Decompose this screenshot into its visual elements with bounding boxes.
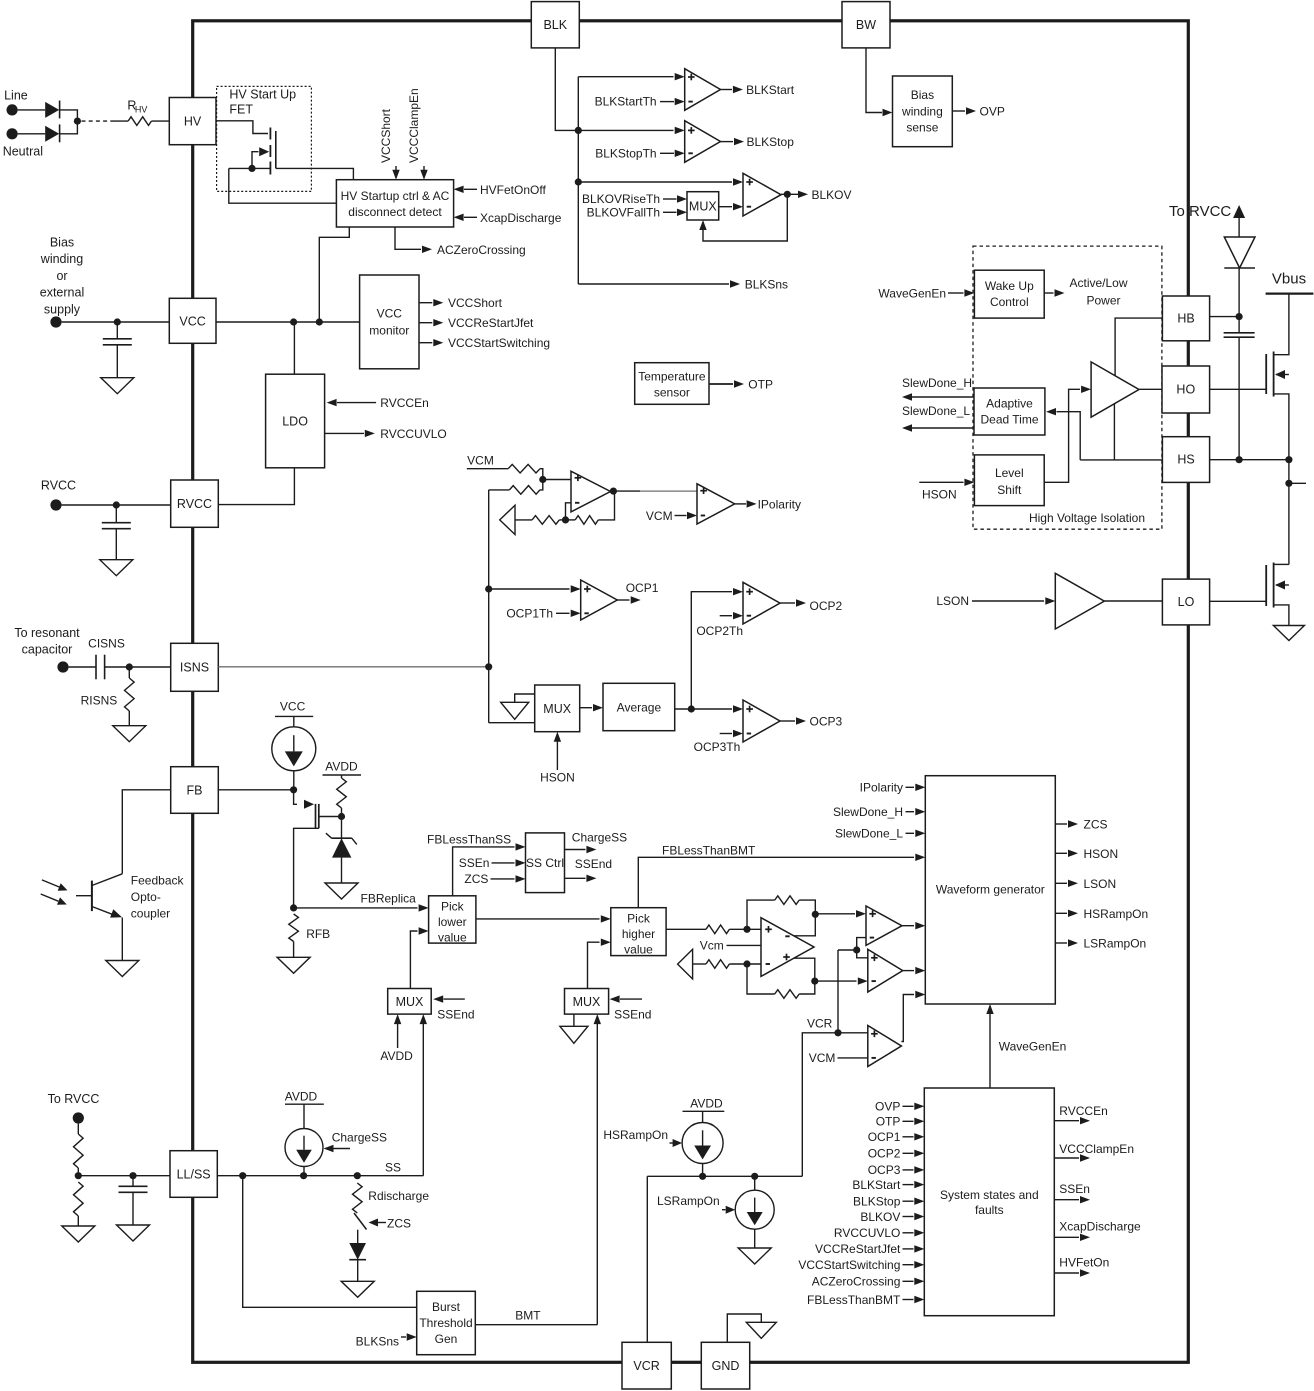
svg-text:VCR: VCR <box>807 1016 833 1030</box>
capacitor bootstrap <box>1224 317 1255 460</box>
block Average <box>603 683 675 730</box>
label OTP fault input <box>876 1115 925 1129</box>
wire bus to OCP1 <box>489 585 581 592</box>
label SSEnd select MUX1 <box>433 995 474 1021</box>
svg-text:HV: HV <box>184 114 202 128</box>
comparator IPolarity <box>697 484 735 524</box>
svg-text:BLKStartTh: BLKStartTh <box>595 95 657 109</box>
box High Voltage Isolation (dashed) <box>973 246 1162 529</box>
svg-text:Feedback: Feedback <box>131 874 185 888</box>
pin LL/SS <box>170 1151 217 1198</box>
wire SlewDone_L output <box>902 404 974 432</box>
pin HB <box>1162 296 1209 341</box>
buffer LSON driver <box>1055 573 1104 629</box>
svg-text:Vbus: Vbus <box>1272 271 1306 288</box>
node opamp output <box>610 488 640 495</box>
svg-text:ACZeroCrossing: ACZeroCrossing <box>437 243 526 257</box>
svg-text:To RVCC: To RVCC <box>48 1092 100 1106</box>
terminal Line <box>7 104 18 115</box>
net AVDD (ramp) <box>683 1097 725 1123</box>
svg-text:OTP: OTP <box>748 378 773 392</box>
wire supply to VCC pin <box>62 318 170 325</box>
wire HB to driver <box>1115 318 1162 376</box>
svg-text:OVP: OVP <box>980 105 1005 119</box>
resistor diff amp feedback bottom <box>747 964 815 998</box>
svg-text:LSRampOn: LSRampOn <box>1084 937 1147 951</box>
mux MUX2 (BMT/gnd) <box>565 989 609 1015</box>
block Burst Threshold Gen <box>417 1291 476 1354</box>
svg-text:CISNS: CISNS <box>88 637 125 651</box>
svg-text:OCP1: OCP1 <box>626 581 659 595</box>
wire BLKSns <box>578 278 788 292</box>
wire HVFetOn output <box>1054 1255 1109 1276</box>
comparator BLKOV <box>743 173 781 216</box>
wire Active/Low Power output <box>1044 276 1128 308</box>
svg-text:BLKStart: BLKStart <box>852 1178 901 1192</box>
block VCC monitor <box>360 275 419 369</box>
svg-text:or: or <box>56 269 67 283</box>
box HV Start Up FET (dashed) <box>217 86 312 191</box>
wire SlewDone_H output <box>902 376 974 401</box>
terminal LL/SS divider <box>73 1112 84 1123</box>
label HSON input <box>919 479 974 502</box>
svg-text:BLKStopTh: BLKStopTh <box>595 146 656 160</box>
svg-text:BLKOV: BLKOV <box>812 188 852 202</box>
svg-text:HV: HV <box>135 105 148 115</box>
node opamp plus input <box>539 476 571 483</box>
svg-text:FBLessThanSS: FBLessThanSS <box>427 832 511 846</box>
wire VCR horizontal <box>647 1173 802 1180</box>
svg-text:OCP2: OCP2 <box>810 599 843 613</box>
wire VCR net <box>802 1033 838 1177</box>
label BLKStart fault input <box>852 1178 924 1192</box>
wire HB external <box>1210 313 1243 320</box>
svg-text:lower: lower <box>438 915 467 929</box>
wire to RVCC arrow <box>1233 205 1245 237</box>
block Waveform generator <box>925 776 1055 1004</box>
svg-text:To RVCC: To RVCC <box>1169 203 1231 220</box>
terminal Neutral <box>7 128 18 139</box>
label XcapDischarge input <box>454 211 562 225</box>
wire startup ctrl to VCC node <box>319 227 349 322</box>
svg-text:VCC: VCC <box>280 700 306 714</box>
ground MUX reference triangle <box>501 694 535 719</box>
svg-text:MUX: MUX <box>573 995 601 1009</box>
svg-text:RVCCUVLO: RVCCUVLO <box>380 427 446 441</box>
block SS Ctrl <box>526 833 565 893</box>
svg-text:BLKSns: BLKSns <box>356 1335 399 1349</box>
resistor to VCM buffer <box>515 516 566 525</box>
label VCCClampEn (vertical) <box>407 88 428 179</box>
svg-text:ChargeSS: ChargeSS <box>332 1130 387 1144</box>
svg-text:coupler: coupler <box>131 907 170 921</box>
wire LSRampOn to ground <box>754 1229 756 1248</box>
block Bias winding sense <box>893 76 953 147</box>
svg-text:VCR: VCR <box>633 1359 659 1373</box>
resistor RFB <box>289 914 330 957</box>
net AVDD (ChargeSS) <box>285 1090 324 1129</box>
wire FB to opto collector <box>122 790 170 874</box>
wire neutral to diode <box>18 133 46 135</box>
wire OTP output <box>709 378 773 392</box>
block Pick higher value <box>611 908 666 957</box>
ground RFB <box>277 957 310 973</box>
svg-text:IPolarity: IPolarity <box>860 781 903 795</box>
svg-text:BW: BW <box>856 18 876 32</box>
diode SS discharge <box>349 1230 366 1282</box>
wire VCC internal rail <box>216 318 360 325</box>
transistor HV startup FET <box>252 128 276 175</box>
label WaveGenEn input <box>878 286 974 300</box>
wire VCCShort output <box>419 296 503 310</box>
ground divider <box>62 1226 95 1242</box>
terminal RVCC <box>50 499 61 510</box>
svg-text:Control: Control <box>990 295 1029 309</box>
svg-text:RVCCEn: RVCCEn <box>380 396 428 410</box>
wire FB to node <box>218 786 297 793</box>
comparator waveform B <box>868 949 903 992</box>
wire low FET drain <box>1274 563 1289 565</box>
resistor VCM input <box>508 464 543 479</box>
comparator OCP2 <box>743 582 780 624</box>
svg-text:SlewDone_L: SlewDone_L <box>902 404 970 418</box>
svg-text:HO: HO <box>1176 383 1195 397</box>
svg-text:RVCC: RVCC <box>177 497 212 511</box>
svg-text:Threshold: Threshold <box>419 1316 472 1330</box>
wire rectifier junction <box>60 110 81 134</box>
block LDO <box>266 374 325 468</box>
capacitor LLSS <box>119 1176 148 1225</box>
svg-text:BLKStart: BLKStart <box>746 83 795 97</box>
label VCM to comparator <box>809 1051 868 1065</box>
label OVP fault input <box>875 1100 924 1114</box>
node BLKOV output <box>781 188 852 202</box>
wire LSON output <box>1055 877 1116 891</box>
svg-text:SS: SS <box>385 1160 401 1174</box>
svg-text:LDO: LDO <box>282 414 308 428</box>
svg-text:FBLessThanBMT: FBLessThanBMT <box>807 1293 901 1307</box>
svg-text:MUX: MUX <box>396 995 424 1009</box>
svg-text:OCP3: OCP3 <box>810 715 843 729</box>
svg-text:RVCCEn: RVCCEn <box>1059 1104 1107 1118</box>
wire RVCC to pin <box>62 501 171 508</box>
label VCM to IPolarity <box>646 509 697 523</box>
wire BLK to BLKStop comparator <box>578 127 684 134</box>
svg-text:XcapDischarge: XcapDischarge <box>1059 1220 1141 1234</box>
wire ZCS output <box>1055 818 1107 832</box>
label Vcm <box>700 938 761 952</box>
svg-text:VCM: VCM <box>809 1051 836 1065</box>
svg-text:higher: higher <box>622 927 655 941</box>
wire ISNS internal (gray) <box>218 666 488 668</box>
ground opto emitter <box>106 961 139 977</box>
terminal ISNS <box>57 661 68 672</box>
resistor RISNS <box>81 667 134 726</box>
pin RVCC <box>171 480 219 527</box>
comparator BLKStop <box>685 121 721 163</box>
svg-text:VCCStartSwitching: VCCStartSwitching <box>448 336 550 350</box>
wire ChargeSS source to SS <box>303 1167 305 1176</box>
wire line to diode <box>18 109 46 111</box>
node Average output <box>675 705 743 712</box>
svg-text:VCCReStartJfet: VCCReStartJfet <box>815 1242 901 1256</box>
svg-text:BLKOVRiseTh: BLKOVRiseTh <box>582 192 660 206</box>
ground RISNS <box>113 726 146 742</box>
transistor high-side MOSFET <box>1266 352 1289 460</box>
wire SS to burst threshold gen <box>243 1176 417 1308</box>
svg-text:disconnect detect: disconnect detect <box>348 205 442 219</box>
net VCC above current source <box>275 700 313 727</box>
label BLKOVRiseTh <box>582 192 687 206</box>
svg-text:OVP: OVP <box>875 1100 900 1114</box>
svg-text:faults: faults <box>975 1203 1004 1217</box>
ground low FET source <box>1273 626 1304 641</box>
net SS <box>217 1160 423 1179</box>
wire BLK to BLKStart comparator <box>578 73 684 80</box>
svg-text:Vcm: Vcm <box>700 938 724 952</box>
resistor pick higher to diff amp <box>666 925 761 934</box>
mux BLKOV threshold MUX <box>687 192 719 220</box>
ground SS diode <box>341 1281 374 1297</box>
svg-text:FBReplica: FBReplica <box>361 891 417 905</box>
block Temperature sensor <box>635 363 709 405</box>
wire VCCClampEn output <box>1054 1142 1134 1162</box>
capacitor RVCC <box>102 505 131 560</box>
svg-text:OCP3Th: OCP3Th <box>694 740 741 754</box>
comparator waveform A <box>866 906 902 945</box>
pin BW <box>842 2 890 48</box>
ground MUX2 input <box>560 1014 588 1043</box>
svg-text:Pick: Pick <box>627 912 651 926</box>
current source LSRampOn <box>735 1176 774 1229</box>
node VCR sense junction <box>838 938 868 1033</box>
buffer VCM reference (left) <box>500 505 515 534</box>
comparator OCP1 <box>581 580 618 620</box>
transistor low-side MOSFET <box>1266 563 1289 626</box>
svg-text:FBLessThanBMT: FBLessThanBMT <box>662 844 756 858</box>
wire RVCCEn output <box>1054 1104 1107 1124</box>
svg-text:VCCStartSwitching: VCCStartSwitching <box>798 1258 900 1272</box>
label IPolarity input <box>860 781 926 795</box>
wire VCCReStartJfet output <box>419 316 534 330</box>
svg-text:SSEn: SSEn <box>459 856 490 870</box>
label BLKOV fault input <box>860 1210 924 1224</box>
svg-text:ACZeroCrossing: ACZeroCrossing <box>812 1275 901 1289</box>
resistor diff amp feedback top <box>747 896 815 930</box>
comparator BLKStart <box>685 69 721 111</box>
svg-text:System states and: System states and <box>940 1188 1039 1202</box>
wire MUX to Average <box>580 704 603 711</box>
svg-text:SS Ctrl: SS Ctrl <box>526 856 564 870</box>
svg-text:Waveform generator: Waveform generator <box>936 883 1045 897</box>
block Wake Up Control <box>974 270 1044 318</box>
svg-text:OCP2Th: OCP2Th <box>696 624 743 638</box>
net Vbus <box>1266 271 1314 294</box>
svg-text:LSON: LSON <box>1084 877 1117 891</box>
svg-text:Opto-: Opto- <box>131 890 161 904</box>
ground zener <box>325 883 358 899</box>
wire SS into MUX1 <box>420 1014 427 1176</box>
svg-text:BMT: BMT <box>515 1309 541 1323</box>
wire XcapDischarge output <box>1054 1220 1141 1241</box>
wire BLKStart output <box>721 83 795 97</box>
wire VCR to pin <box>646 1176 648 1342</box>
wire VCCStartSwitching output <box>419 336 550 350</box>
svg-text:winding: winding <box>40 252 83 266</box>
svg-text:SSEnd: SSEnd <box>614 1008 651 1022</box>
label SSEnd select MUX2 <box>610 995 652 1021</box>
svg-text:LL/SS: LL/SS <box>177 1168 211 1182</box>
wire SSEnd output <box>565 857 613 882</box>
label SSEn input <box>459 856 526 870</box>
pin LO <box>1162 579 1209 625</box>
svg-text:SSEnd: SSEnd <box>437 1008 474 1022</box>
pin FB <box>171 767 219 814</box>
pin VCC <box>169 298 216 343</box>
wire FET gate to startup ctrl <box>276 168 354 179</box>
wire BMT into MUX2 <box>594 1014 601 1325</box>
wire FBLessThanSS <box>427 832 525 896</box>
diode bootstrap <box>1224 237 1255 317</box>
block HV Startup ctrl & AC disconnect detect <box>336 180 453 227</box>
pin GND <box>701 1342 749 1389</box>
svg-text:RISNS: RISNS <box>81 694 118 708</box>
wire MUX to BLKOV minus <box>719 203 743 210</box>
svg-text:VCCReStartJfet: VCCReStartJfet <box>448 316 534 330</box>
diode D-line <box>45 101 59 119</box>
svg-text:HSRampOn: HSRampOn <box>603 1128 668 1142</box>
svg-text:Burst: Burst <box>432 1300 461 1314</box>
wire comparator B output <box>903 967 926 974</box>
label RVCCUVLO fault input <box>834 1226 924 1240</box>
wire FET source to startup ctrl <box>229 168 337 203</box>
label HSON select <box>540 732 575 785</box>
op-amp ISNS scaling <box>571 471 611 512</box>
svg-text:RVCC: RVCC <box>41 479 76 493</box>
label HVFetOnOff input <box>454 183 547 197</box>
current source FB pull-up <box>272 727 316 771</box>
net BMT <box>475 1309 597 1325</box>
op-amp fully differential <box>761 918 814 977</box>
ground GND pin symbol <box>727 1314 776 1342</box>
svg-text:RVCCUVLO: RVCCUVLO <box>834 1226 900 1240</box>
svg-text:BLKStop: BLKStop <box>853 1195 901 1209</box>
label OCP2 fault input <box>868 1147 925 1161</box>
wire OVP output <box>952 105 1005 119</box>
net VCM rail <box>467 454 508 469</box>
wire comparator A output <box>902 922 925 929</box>
svg-text:VCCShort: VCCShort <box>448 296 503 310</box>
svg-text:OTP: OTP <box>876 1115 901 1129</box>
resistor ISNS input <box>489 480 543 495</box>
wire ISNS bus <box>485 490 492 723</box>
label BLKOVFallTh <box>587 206 687 220</box>
svg-text:Bias: Bias <box>911 88 934 102</box>
svg-text:HB: HB <box>1177 312 1194 326</box>
block Adaptive Dead Time <box>974 388 1045 435</box>
svg-text:sense: sense <box>906 121 938 135</box>
wire MUX2 to pick higher <box>588 939 611 989</box>
svg-text:HSRampOn: HSRampOn <box>1084 907 1149 921</box>
svg-text:MUX: MUX <box>689 199 717 213</box>
svg-text:RFB: RFB <box>306 927 330 941</box>
svg-text:Shift: Shift <box>997 483 1022 497</box>
capacitor VCC decoupling <box>103 322 132 378</box>
svg-text:ZCS: ZCS <box>1084 818 1108 832</box>
mux MUX1 (SS/AVDD) <box>388 989 432 1015</box>
svg-text:BLK: BLK <box>543 18 567 32</box>
resistor divider lower <box>74 1182 84 1226</box>
svg-text:VCCClampEn: VCCClampEn <box>407 88 421 163</box>
svg-text:FB: FB <box>187 784 203 798</box>
wire opamp to IPolarity comparator (gray) <box>640 490 697 492</box>
node diff amp output top <box>794 910 866 936</box>
svg-text:HS: HS <box>1177 453 1194 467</box>
label BLKStop fault input <box>853 1195 924 1209</box>
wire HS return <box>1080 404 1162 460</box>
svg-text:VCM: VCM <box>646 509 673 523</box>
wire driver to HO <box>1139 388 1162 390</box>
svg-text:value: value <box>438 931 467 945</box>
svg-text:VCC: VCC <box>377 306 403 320</box>
svg-text:AVDD: AVDD <box>380 1049 413 1063</box>
label SlewDone_L input <box>835 827 925 841</box>
current source HSRampOn <box>682 1123 723 1164</box>
svg-text:supply: supply <box>44 302 81 316</box>
svg-text:Line: Line <box>4 89 28 103</box>
svg-text:FET: FET <box>229 103 253 117</box>
comparator OCP3 <box>743 700 780 742</box>
label OCP2Th <box>696 612 743 638</box>
wire LO to low FET gate <box>1210 600 1267 602</box>
wire bus to MUX <box>489 722 535 724</box>
svg-text:HVFetOnOff: HVFetOnOff <box>480 183 546 197</box>
svg-text:Gen: Gen <box>435 1332 458 1346</box>
label FBLessThanBMT fault input <box>807 1293 924 1307</box>
svg-text:VCC: VCC <box>179 315 205 329</box>
node HS switch node <box>1210 456 1306 564</box>
svg-text:BLKSns: BLKSns <box>745 278 788 292</box>
svg-text:SSEnd: SSEnd <box>575 857 612 871</box>
svg-text:Bias: Bias <box>50 236 74 250</box>
svg-text:ChargeSS: ChargeSS <box>572 830 627 844</box>
wire pick lower to pick higher <box>476 915 611 922</box>
wire VCR comparator output <box>901 991 925 1042</box>
capacitor CISNS <box>69 655 171 680</box>
svg-text:Temperature: Temperature <box>638 369 706 383</box>
label BLKSns input <box>356 1333 417 1348</box>
label Bias winding or external supply <box>40 236 84 317</box>
svg-text:High Voltage Isolation: High Voltage Isolation <box>1029 511 1145 525</box>
wire BLK to BLKOV comparator <box>578 178 743 185</box>
svg-text:BLKStop: BLKStop <box>747 135 795 149</box>
node FET source <box>229 165 271 172</box>
resistor AVDD pull-up <box>337 778 347 820</box>
svg-text:Level: Level <box>995 466 1024 480</box>
wire FBLessThanBMT <box>638 844 925 908</box>
svg-text:HVFetOn: HVFetOn <box>1059 1255 1109 1269</box>
wire IPolarity output <box>735 497 801 511</box>
wire opamp minus feedback node <box>562 503 571 524</box>
wire SSEn output <box>1054 1182 1090 1203</box>
svg-text:XcapDischarge: XcapDischarge <box>480 211 562 225</box>
resistor RHV <box>112 99 169 126</box>
svg-text:MUX: MUX <box>543 702 571 716</box>
wire BLKOV feedback to MUX <box>699 194 787 241</box>
svg-text:SlewDone_L: SlewDone_L <box>835 827 903 841</box>
label RVCCEn input <box>327 396 429 410</box>
svg-text:SlewDone_H: SlewDone_H <box>902 376 972 390</box>
